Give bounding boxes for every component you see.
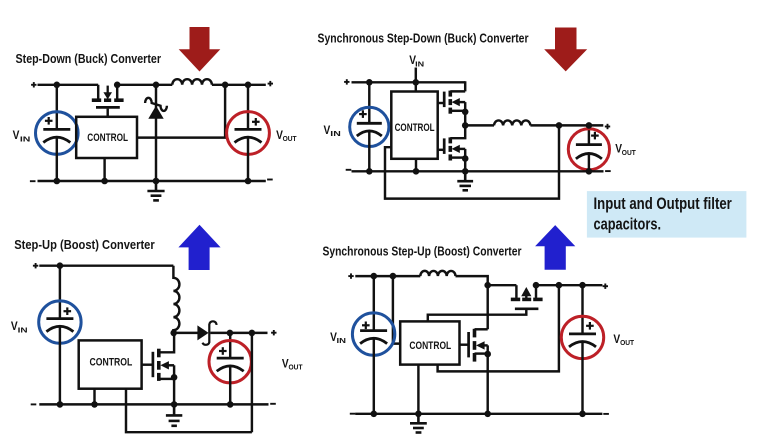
transistor Q1 body arrow (down) <box>103 86 112 100</box>
transistor Q1 channel contact bars <box>92 98 124 102</box>
label VOUT <box>282 356 303 371</box>
transistor Q2 gate bar <box>443 92 446 108</box>
wire: feedback control to output rail <box>438 285 559 371</box>
blue up arrow (boost 1) <box>178 225 220 270</box>
junction dots circuit 4 <box>371 273 586 417</box>
transistor Q4 gate bar <box>152 352 155 377</box>
node: info box background <box>587 191 747 238</box>
svg-text:Input and Output filter: Input and Output filter <box>594 195 733 213</box>
svg-text:Step-Down (Buck) Converter: Step-Down (Buck) Converter <box>16 52 162 66</box>
label VIN <box>330 330 346 345</box>
wire: VIN feed lead into control <box>415 68 417 92</box>
ground symbol (circuit 3) <box>166 404 182 425</box>
svg-text:IN: IN <box>337 336 347 345</box>
wire: VOUT bottom lead <box>229 366 231 404</box>
label + (output top right) <box>268 81 273 86</box>
junction dots circuit 1 <box>54 82 252 185</box>
wire: VOUT top lead <box>229 333 231 358</box>
label - (bottom right) <box>267 179 273 181</box>
polarity + inside VOUT <box>252 118 260 126</box>
label VOUT <box>613 332 634 347</box>
junction dots circuit 3 <box>57 262 256 407</box>
label - (bottom right) <box>605 170 611 172</box>
label - (bottom left) <box>346 169 352 171</box>
capacitor plates inside VIN <box>43 129 70 142</box>
wire: VIN top lead <box>368 82 370 123</box>
wire: feedback from output node to control <box>137 85 225 138</box>
wire: Q3 source bus to ground rail <box>464 149 466 171</box>
capacitor plates inside VIN <box>357 123 382 136</box>
transistor Q4 channel bars <box>157 349 161 381</box>
wire: rail corner down to Q2 drain <box>450 81 465 91</box>
svg-text:OUT: OUT <box>620 338 634 347</box>
label VIN (top feed) <box>409 53 424 68</box>
label + (input top left) <box>344 79 349 84</box>
polarity + inside VIN <box>45 117 53 125</box>
polarity + inside VOUT <box>586 322 594 330</box>
diode D3 anode triangle (right) <box>197 325 208 340</box>
polarity + inside VIN <box>362 322 370 330</box>
transistor Q6 PMOS wire from switch bus <box>488 284 517 286</box>
wire: top rail right of inductor with corner down to Q5 drain <box>456 276 488 329</box>
polarity + inside VIN <box>359 110 367 118</box>
svg-text:IN: IN <box>18 325 28 334</box>
wire: Q2 body lead <box>459 101 465 103</box>
transistor Q6 body arrow (up) <box>521 287 531 299</box>
wire: switch node to inductor <box>465 124 494 126</box>
wire: bottom rail <box>352 170 604 172</box>
wire: VOUT top lead <box>247 85 249 130</box>
label + (output top right) <box>603 284 608 289</box>
svg-text:IN: IN <box>20 134 31 143</box>
wire: VIN bottom lead <box>368 131 370 171</box>
red down arrow (buck 1) <box>179 27 221 72</box>
wire: control ground lead <box>93 389 95 405</box>
wire: Q4 drain stub to switch node <box>159 333 174 352</box>
wire: VOUT bottom lead <box>247 138 249 181</box>
label + (output) <box>605 124 610 129</box>
transistor Q6 channel contact bars <box>511 298 543 302</box>
wire: Q5 drain stub <box>475 328 488 330</box>
wire: diode to output <box>210 332 267 334</box>
transistor Q2 channel bars <box>448 91 452 114</box>
transistor Q1 PMOS right stub <box>116 85 118 99</box>
wire: switch node to diode <box>173 332 197 334</box>
wire: top rail left of inductor <box>355 275 420 277</box>
svg-text:Synchronous Step-Down (Buck) C: Synchronous Step-Down (Buck) Converter <box>318 31 529 45</box>
wire: control ground lead <box>415 159 417 172</box>
capacitor VOUT (red circle) <box>568 129 609 170</box>
wire: top rail <box>39 264 173 266</box>
transistor Q1 gate bar <box>96 106 120 109</box>
wire: Q4 source bus to ground rail <box>173 365 175 404</box>
svg-text:OUT: OUT <box>622 148 636 157</box>
inductor L1 <box>172 79 212 85</box>
capacitor VOUT (red circle) <box>227 112 270 155</box>
svg-text:CONTROL: CONTROL <box>90 357 133 369</box>
inductor L3 (vertical) <box>173 266 179 333</box>
transistor Q6 gate bar <box>515 307 539 310</box>
source VIN (blue circle) <box>36 112 79 155</box>
wire: VIN bottom lead <box>373 339 375 414</box>
transistor Q4 gate lead <box>142 363 153 365</box>
svg-text:CONTROL: CONTROL <box>409 340 451 352</box>
wire: feedback loop output to control <box>385 125 559 198</box>
transistor Q5 channel bars <box>473 329 477 362</box>
wire: Q3 body lead <box>459 148 465 150</box>
wire: feedback loop bottom <box>126 389 252 433</box>
svg-text:CONTROL: CONTROL <box>87 132 128 144</box>
inductor L2 <box>494 120 530 125</box>
wire: Q3 source stub <box>450 156 465 158</box>
wire: VIN top lead <box>56 85 58 130</box>
wire: output right vertical (feedback tap) <box>251 333 253 432</box>
transistor Q5 gate bar <box>467 332 470 357</box>
label - (bottom right) <box>603 413 609 415</box>
source VIN (blue circle) <box>350 107 389 146</box>
label + (input top left) <box>31 82 36 87</box>
wire: top rail right segment <box>212 84 266 86</box>
transistor Q4 body arrow <box>160 361 169 369</box>
label - (bottom left) <box>350 413 356 415</box>
label VIN <box>13 128 31 143</box>
transistor Q3 gate bar <box>443 138 446 154</box>
op-amp/control box U4 <box>400 321 459 364</box>
label + (output) <box>271 330 276 335</box>
ground symbol (circuit 4) <box>410 414 427 433</box>
wire: Q1 gate lead to control <box>106 109 108 117</box>
inductor L4 <box>420 271 455 276</box>
polarity + inside VOUT <box>591 132 599 140</box>
svg-text:IN: IN <box>330 129 341 138</box>
wire: bottom rail <box>355 413 602 415</box>
wire: Q6 gate routed to control top <box>428 310 527 321</box>
red down arrow (buck 2) <box>544 28 587 72</box>
wire: Q2 source stub <box>450 110 465 112</box>
wire: diode D1 vertical wire <box>155 85 157 181</box>
wire: VOUT top lead <box>588 125 590 144</box>
wire: control ground lead <box>103 158 105 181</box>
diode D1 anode triangle (up) <box>148 106 163 119</box>
wire: Q5 source bus to ground rail <box>486 345 488 413</box>
svg-text:OUT: OUT <box>289 363 303 372</box>
capacitor plates inside VOUT <box>235 129 262 142</box>
capacitor plates inside VIN <box>360 331 387 344</box>
wire: bottom rail <box>39 403 268 405</box>
source VIN (blue circle) <box>39 301 81 343</box>
op-amp/control box U2 <box>391 92 437 159</box>
wire: VIN bottom lead <box>59 327 61 405</box>
transistor Q3 body arrow <box>452 145 460 153</box>
label - (bottom left) <box>31 403 37 405</box>
wire: Q5 body lead <box>484 344 488 346</box>
capacitor VOUT (red circle) <box>561 316 603 358</box>
transistor Q5 body arrow <box>476 341 485 349</box>
wire: Q5 source stub <box>475 352 488 354</box>
ground symbol (circuit 2) <box>457 171 473 190</box>
transistor Q2 body arrow <box>452 98 460 106</box>
op-amp/control box U3 <box>79 340 142 388</box>
label + (input top left) <box>348 273 353 278</box>
transistor Q6 PMOS left stub <box>515 285 517 298</box>
blue up arrow (boost 2) <box>535 225 575 270</box>
wire: top rail <box>352 81 466 83</box>
polarity + inside VIN <box>64 307 72 315</box>
polarity + inside VOUT <box>219 347 227 355</box>
ground symbol (circuit 1) <box>147 181 164 200</box>
wire: control ground lead <box>417 365 419 414</box>
transistor Q1 PMOS left stub <box>97 85 99 99</box>
wire: top rail left segment <box>38 84 99 86</box>
junction dots circuit 2 <box>366 79 592 175</box>
op-amp/control box U1 <box>76 117 137 158</box>
label VIN (source) <box>324 123 341 138</box>
capacitor plates inside VOUT <box>217 358 244 371</box>
transistor Q6 PMOS right stub <box>535 285 537 298</box>
wire: output rail <box>536 284 602 286</box>
label VOUT <box>276 128 297 143</box>
wire: rail to control input <box>393 276 400 344</box>
capacitor plates inside VIN <box>46 319 73 332</box>
wire: Q2 source bus to switch node <box>464 102 466 125</box>
source VIN (blue circle) <box>352 313 394 355</box>
diode D3 schottky cathode mark <box>203 321 217 345</box>
capacitor plates inside VOUT <box>576 145 602 159</box>
label - (bottom right) <box>270 403 276 405</box>
wire: VOUT top lead <box>581 285 583 334</box>
wire: Q4 source stub <box>159 378 174 380</box>
wire: VIN bottom lead <box>56 138 58 181</box>
svg-text:Step-Up (Boost) Converter: Step-Up (Boost) Converter <box>14 238 155 252</box>
wire: Q4 body lead <box>169 364 175 366</box>
label VOUT <box>615 142 636 157</box>
capacitor VOUT (red circle) <box>209 341 251 383</box>
wire: VIN top lead <box>373 276 375 331</box>
svg-text:OUT: OUT <box>283 134 297 143</box>
transistor Q5 gate lead <box>460 343 469 345</box>
capacitor plates inside VOUT <box>569 334 596 347</box>
label + (input top left) <box>33 263 38 268</box>
svg-text:IN: IN <box>415 59 424 68</box>
wire: top rail mid segment <box>117 84 172 86</box>
wire: VOUT bottom lead <box>588 154 590 172</box>
wire: Q3 drain stub up to switch node <box>450 125 465 138</box>
wire: bottom rail <box>38 180 266 182</box>
transistor Q3 channel bars <box>448 137 452 160</box>
svg-text:capacitors.: capacitors. <box>594 216 662 234</box>
wire: VOUT bottom lead <box>581 342 583 414</box>
label - (bottom left) <box>30 180 36 182</box>
diode D1 schottky cathode mark <box>145 98 167 111</box>
label VIN <box>11 319 28 334</box>
wire: VIN top lead <box>59 266 61 319</box>
transistor Q2 (high side) gate lead <box>438 102 445 104</box>
svg-text:CONTROL: CONTROL <box>395 122 435 134</box>
transistor Q3 (low side) gate lead <box>438 149 445 151</box>
wire: inductor to output <box>530 124 603 126</box>
svg-text:Synchronous Step-Up (Boost) Co: Synchronous Step-Up (Boost) Converter <box>323 244 522 258</box>
